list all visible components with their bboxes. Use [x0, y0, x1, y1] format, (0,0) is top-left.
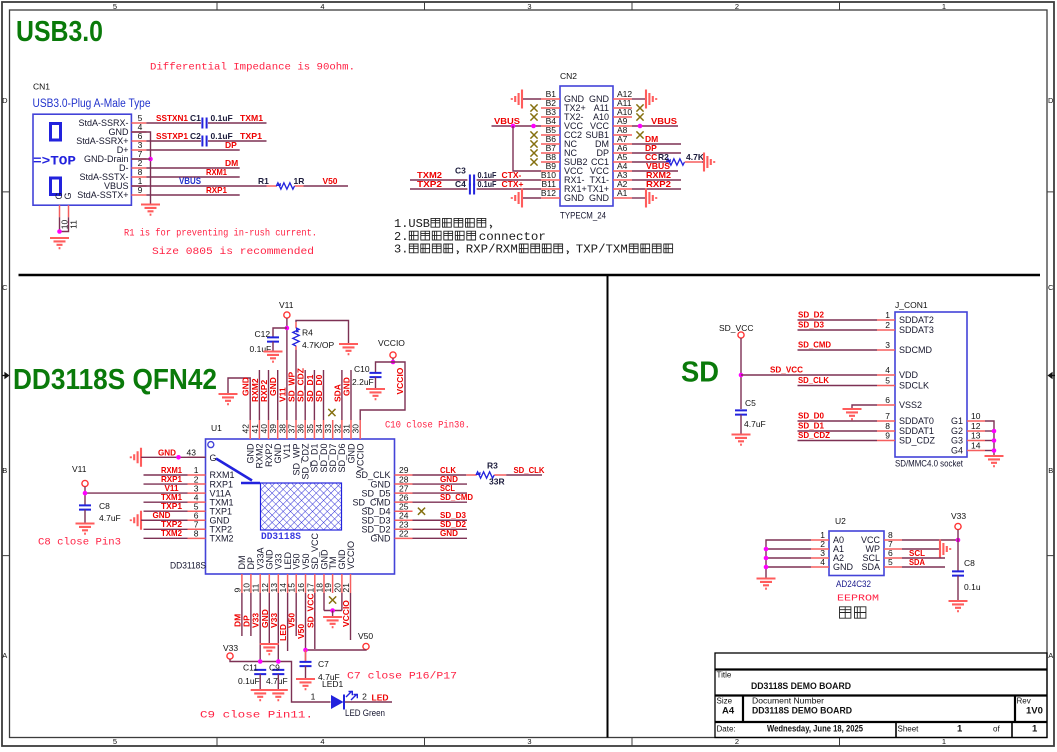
connector CN1 body [33, 114, 131, 205]
svg-text:LED1: LED1 [322, 679, 344, 689]
CN1 pin stubs [131, 123, 146, 195]
svg-text:VCCIO: VCCIO [346, 541, 356, 570]
section divider horizontal [19, 274, 1041, 277]
junction V11 left [83, 491, 88, 496]
svg-text:G4: G4 [951, 446, 963, 456]
svg-text:4.7K: 4.7K [686, 152, 705, 162]
svg-text:3: 3 [527, 737, 531, 746]
svg-text:V11: V11 [72, 464, 87, 474]
svg-text:LED: LED [372, 693, 389, 703]
svg-text:Size: Size [717, 697, 733, 706]
svg-text:5: 5 [113, 2, 117, 11]
wire C12 ground [272, 342, 274, 351]
svg-text:C5: C5 [745, 398, 756, 408]
U1 corner mark [216, 459, 260, 484]
wire VCCIO to pin30 [360, 362, 405, 420]
svg-text:4.7uF: 4.7uF [744, 419, 766, 429]
section divider vertical [607, 275, 609, 738]
svg-text:R4: R4 [302, 328, 313, 338]
svg-text:C7 close P16/P17: C7 close P16/P17 [347, 671, 457, 683]
capacitor C4 [470, 184, 474, 195]
power symbol V11 left [82, 480, 88, 486]
svg-text:10: 10 [971, 411, 981, 421]
svg-text:1: 1 [942, 737, 946, 746]
svg-text:5: 5 [885, 376, 890, 386]
power symbol VCCIO [390, 352, 396, 358]
svg-text:SD_CLK: SD_CLK [798, 375, 830, 385]
ground U1 pin43 [131, 448, 141, 467]
svg-text:Size 0805 is recommended: Size 0805 is recommended [152, 246, 314, 258]
wire U2 WP ground [902, 548, 940, 550]
resistor R3 [466, 472, 506, 478]
CN1 USB icon upper [51, 124, 61, 141]
wire U1 pin22 [413, 537, 468, 539]
svg-text:2.2uF: 2.2uF [352, 377, 374, 387]
svg-text:V33: V33 [223, 643, 238, 653]
wire CN1 GND [131, 132, 150, 204]
junction U2 V33 [956, 538, 961, 543]
wire V50 to pin16 [306, 649, 367, 651]
CN2 pin stubs [541, 99, 632, 198]
svg-text:RXP2: RXP2 [646, 179, 671, 189]
connector J_CON1 body [895, 312, 967, 457]
wire U1 pin18-20 tie [324, 610, 342, 612]
junction V33 C9 [276, 659, 281, 664]
wire SD_CDZ j [798, 440, 878, 442]
svg-text:G: G [210, 453, 217, 463]
svg-text:R1: R1 [258, 176, 269, 186]
svg-text:DD3118S: DD3118S [170, 561, 206, 571]
svg-text:R3: R3 [487, 461, 498, 471]
wire VCCIO down [392, 358, 394, 362]
ground U1 pin18-20 [323, 617, 342, 627]
wire CN2 A12 [632, 98, 646, 100]
wire CLK [413, 474, 467, 476]
wire R2 to ground [702, 161, 704, 163]
wire RXM1 [146, 176, 239, 178]
capacitor C9 [272, 670, 284, 674]
wire C7 ground [305, 666, 307, 678]
wire DM CN2 [632, 143, 681, 145]
svg-text:C8: C8 [99, 501, 110, 511]
svg-text:13: 13 [971, 431, 981, 441]
wire CN2 B12 [522, 197, 541, 199]
ground R4 [339, 344, 358, 354]
svg-text:GND: GND [833, 562, 854, 572]
note routing swap line3 [394, 243, 673, 257]
svg-text:G2: G2 [951, 426, 963, 436]
wires J_CON1 G2 G3 G4 [985, 431, 994, 451]
svg-text:U1: U1 [211, 423, 222, 433]
U2 pin stubs [811, 540, 902, 567]
svg-text:VCCIO: VCCIO [378, 338, 405, 348]
svg-text:GND: GND [371, 534, 392, 544]
wire V50 [304, 185, 349, 187]
ground CN1 bottom [50, 238, 69, 248]
svg-text:SD_D2: SD_D2 [798, 310, 824, 320]
power symbol SD_VCC [738, 332, 744, 338]
svg-text:C: C [2, 283, 8, 292]
wire RXM2 [632, 179, 681, 181]
svg-text:SDA: SDA [861, 562, 880, 572]
wire DM [146, 167, 239, 169]
svg-text:2: 2 [885, 320, 890, 330]
wire U1 TXM1 [144, 501, 188, 503]
svg-text:USB3.0: USB3.0 [16, 16, 103, 48]
wire U1 TXM2 [144, 537, 188, 539]
wire CN2 B9 feed [513, 126, 541, 171]
svg-text:1V0: 1V0 [1026, 706, 1043, 717]
svg-text:B: B [2, 466, 7, 475]
junction C7 [303, 648, 308, 653]
wire CC [632, 161, 669, 163]
svg-text:5: 5 [113, 737, 117, 746]
svg-text:V11: V11 [279, 300, 294, 310]
junction CN1 pin7 [148, 157, 153, 162]
svg-text:RXM1: RXM1 [206, 167, 227, 177]
wire SD_D1 j [798, 430, 878, 432]
svg-text:SD_D1: SD_D1 [798, 421, 824, 431]
svg-text:GND: GND [440, 528, 458, 538]
svg-text:C2: C2 [190, 131, 201, 141]
wire U1 V11 pin3 [85, 492, 188, 494]
wire SSTXP1 [146, 140, 201, 142]
wire C8 to ground [84, 510, 86, 523]
wire SSTXN1 [146, 122, 201, 124]
wire CN2 A1 [632, 197, 646, 199]
svg-text:of: of [993, 725, 1000, 734]
ground CN2 A12 [646, 90, 656, 109]
svg-text:DD3118S QFN42: DD3118S QFN42 [13, 364, 217, 396]
wire CN1 pin11 [60, 217, 69, 231]
svg-text:U2: U2 [835, 516, 846, 526]
svg-text:Sheet: Sheet [898, 725, 920, 734]
wire U1 pin26 [413, 501, 468, 503]
svg-text:C1: C1 [190, 113, 201, 123]
ground U2 WP [940, 540, 950, 559]
junction U2 GND [764, 565, 769, 570]
connector CN2 body [560, 86, 613, 206]
wire C11 ground [259, 674, 261, 689]
svg-text:GND: GND [158, 447, 176, 457]
junction VCCIO [391, 360, 396, 365]
wire VBUS CN2 left [492, 125, 542, 127]
svg-text:8: 8 [885, 421, 890, 431]
U1 top bottom pin stubs [242, 420, 360, 593]
J_CON1 pin names and numbers [885, 310, 980, 456]
svg-text:SDDAT1: SDDAT1 [899, 426, 934, 436]
svg-text:0.1uF: 0.1uF [211, 113, 233, 123]
wire R4 top to ground [296, 321, 349, 344]
svg-text:C8 close Pin3: C8 close Pin3 [38, 537, 121, 549]
capacitor C12 [267, 337, 279, 341]
svg-text:SD_D0: SD_D0 [314, 374, 324, 402]
wire V33 U2 stem [957, 530, 959, 540]
wire SD_D0 j [798, 420, 878, 422]
junction V33 C11 [258, 659, 263, 664]
wire V11 left [84, 487, 86, 506]
wire pin19 ground stem [332, 611, 334, 617]
svg-text:4: 4 [320, 2, 324, 11]
wire SD_WP down [295, 350, 297, 420]
CN2 no-connect marks [530, 104, 643, 165]
svg-text:C12: C12 [255, 329, 271, 339]
svg-text:DD3118S DEMO BOARD: DD3118S DEMO BOARD [751, 681, 851, 692]
wire to C12 [273, 328, 287, 337]
svg-text:C10: C10 [354, 364, 370, 374]
no-connect U1 pin25 [418, 508, 425, 515]
ground C10 [366, 389, 385, 399]
IC U2 body [829, 531, 884, 576]
resistor R1 [267, 183, 304, 189]
right fold arrow [1049, 373, 1056, 378]
ground C8 U2 [949, 601, 968, 611]
svg-text:SD_CMD: SD_CMD [798, 340, 831, 350]
svg-text:GND: GND [342, 377, 352, 396]
junction G2 [992, 429, 997, 434]
svg-text:TXM1: TXM1 [240, 113, 263, 123]
ground U1 pin6 [131, 511, 141, 530]
svg-text:2: 2 [735, 737, 739, 746]
svg-text:Date:: Date: [717, 725, 736, 734]
svg-text:Wednesday, June 18, 2025: Wednesday, June 18, 2025 [767, 724, 864, 735]
svg-text:VDD: VDD [899, 370, 919, 380]
svg-text:1R: 1R [294, 176, 305, 186]
svg-text:12: 12 [971, 421, 981, 431]
svg-text:J_CON1: J_CON1 [895, 300, 928, 310]
U1 bottom pin wires [242, 593, 351, 662]
svg-text:V33: V33 [951, 511, 966, 521]
junction CN2 A9 [638, 124, 643, 129]
svg-text:14: 14 [971, 441, 981, 451]
wire U1 pin43 GND [141, 456, 206, 458]
svg-text:SD_VCC: SD_VCC [305, 594, 315, 628]
svg-text:A: A [1048, 651, 1053, 660]
wire RXP1 [146, 194, 239, 196]
wire SD_CLK j [798, 385, 878, 387]
U2 reserved note [840, 607, 866, 618]
U1 top bottom pin names and numbers [232, 424, 365, 593]
svg-text:4: 4 [320, 737, 324, 746]
ground R2 [704, 153, 714, 172]
wire U2 SCL [902, 557, 945, 559]
wire TXM2 [410, 179, 467, 181]
wire SD_CMD j [798, 349, 878, 351]
svg-text:C9: C9 [269, 663, 280, 673]
svg-text:A4: A4 [722, 706, 735, 717]
svg-text:Title: Title [717, 671, 732, 680]
junction G4 [992, 448, 997, 453]
wire V11 top [286, 318, 288, 420]
wire C10 ground [375, 377, 377, 388]
wire CTX+ [477, 188, 541, 190]
capacitor C1 [202, 118, 206, 129]
svg-text:SDA: SDA [909, 557, 925, 567]
CN1 pin 10 11 G labels [54, 192, 73, 199]
svg-text:C3: C3 [455, 166, 466, 176]
resistor R2 [666, 159, 702, 165]
wire U1 RXP1 [144, 483, 188, 485]
svg-text:EEPROM: EEPROM [837, 593, 879, 604]
ground C5 [732, 435, 751, 445]
wire VCCIO to C10 [376, 362, 394, 373]
wire CN2 B1 [522, 98, 541, 100]
wire U1 TXP2 [144, 528, 188, 530]
svg-text:SSTXP1: SSTXP1 [156, 131, 188, 141]
capacitor C8 left [79, 505, 91, 509]
wire DP [146, 149, 239, 151]
wires U2 A1 A2 GND [766, 549, 811, 567]
ground C7 [296, 679, 315, 689]
svg-text:1: 1 [957, 724, 963, 735]
svg-text:SDDAT0: SDDAT0 [899, 416, 934, 426]
svg-text:SD_VCC: SD_VCC [770, 365, 803, 375]
svg-text:SDDAT2: SDDAT2 [899, 315, 934, 325]
svg-text:1: 1 [885, 310, 890, 320]
note USB diff pair line1 [394, 217, 492, 231]
svg-text:7: 7 [885, 411, 890, 421]
svg-text:11: 11 [69, 220, 79, 229]
IC U1 body [206, 439, 395, 574]
svg-text:SD_CDZ: SD_CDZ [798, 430, 830, 440]
svg-text:TXP/TXM: TXP/TXM [576, 243, 628, 257]
wire U1 pin6 GND [141, 519, 188, 521]
wire CTX- [477, 179, 541, 181]
svg-text:VCCIO: VCCIO [356, 444, 366, 473]
svg-text:SD: SD [681, 357, 719, 389]
svg-text:G1: G1 [951, 416, 963, 426]
svg-text:V50: V50 [323, 176, 338, 186]
svg-text:=>TOP: =>TOP [33, 154, 76, 169]
wire U1 pin42 to ground [228, 378, 250, 420]
ground U2 left [757, 579, 776, 589]
svg-text:SD_D0: SD_D0 [798, 411, 824, 421]
svg-text:CN1: CN1 [33, 82, 50, 92]
svg-text:2: 2 [735, 2, 739, 11]
wire C5 ground [740, 415, 742, 434]
svg-text:TXM2: TXM2 [161, 528, 182, 538]
svg-text:DP: DP [225, 140, 237, 150]
svg-text:SDDAT3: SDDAT3 [899, 325, 934, 335]
U1 side pin names and numbers [187, 448, 409, 544]
svg-text:C11: C11 [243, 663, 258, 673]
svg-text:C9 close Pin11.: C9 close Pin11. [200, 710, 313, 722]
CN1 pins 10 11 stubs [60, 205, 69, 217]
svg-text:VCCIO: VCCIO [341, 600, 351, 627]
capacitor C3 [470, 175, 474, 186]
svg-text:Document Number: Document Number [752, 697, 824, 706]
svg-text:9: 9 [885, 431, 890, 441]
svg-text:A: A [2, 651, 7, 660]
svg-text:GND: GND [589, 193, 610, 203]
wire U1 TXP1 [144, 510, 188, 512]
svg-text:1: 1 [942, 2, 946, 11]
svg-text:CN2: CN2 [560, 71, 577, 81]
power symbol V33 U2 [955, 523, 961, 529]
no-connect U1 pin19 [329, 596, 336, 603]
wire VBUS A4 [632, 170, 678, 172]
no-connect U1 pin33 [328, 409, 335, 416]
wire U2 SDA [902, 566, 945, 568]
svg-text:TXP2: TXP2 [417, 179, 442, 189]
svg-text:B: B [1048, 466, 1053, 475]
svg-text:D: D [1048, 96, 1054, 105]
svg-text:33R: 33R [489, 477, 505, 487]
svg-text:D: D [2, 96, 8, 105]
svg-text:SDCLK: SDCLK [899, 381, 929, 391]
ground C12 [264, 352, 283, 362]
svg-text:C7: C7 [318, 659, 329, 669]
wire U1 pin28 [413, 483, 468, 485]
svg-text:6: 6 [885, 395, 890, 405]
ground VSS2 [843, 409, 862, 419]
svg-text:0.1uF: 0.1uF [478, 179, 497, 189]
wire RXP2 [632, 188, 681, 190]
svg-text:R1 is for preventing in-rush c: R1 is for preventing in-rush current. [124, 228, 317, 240]
ground C11 [251, 690, 270, 700]
wire U1 pin27 [413, 492, 468, 494]
svg-text:DD3118S: DD3118S [261, 532, 301, 543]
wire SD_VCC down [740, 338, 742, 409]
wire U1 pin24 [413, 519, 468, 521]
svg-text:GND: GND [564, 193, 585, 203]
ground C8 left [76, 524, 95, 534]
U2 pin names and numbers [820, 530, 893, 572]
svg-text:C10 close Pin30.: C10 close Pin30. [385, 420, 470, 432]
svg-text:C4: C4 [455, 179, 466, 189]
wire C7 red lead [305, 650, 307, 661]
wire TXP1 [208, 140, 267, 142]
wire CN1 pin10 [59, 217, 61, 231]
svg-text:43: 43 [187, 448, 197, 458]
wire SD_VCC to VDD [741, 374, 877, 376]
svg-text:SD_CMD: SD_CMD [440, 492, 473, 502]
svg-text:AD24C32: AD24C32 [836, 579, 871, 589]
junction U1 pin43 [176, 455, 181, 460]
power symbol V11 top [284, 312, 290, 318]
svg-text:SD_CLK: SD_CLK [514, 465, 546, 475]
junction G3 [992, 438, 997, 443]
svg-text:0.1u: 0.1u [964, 582, 981, 592]
wire CN1 pin7 [131, 158, 150, 160]
svg-text:CTX+: CTX+ [502, 179, 524, 189]
left fold arrow [2, 373, 9, 378]
wire VSS2 ground [852, 405, 877, 408]
capacitor C2 [202, 136, 206, 147]
power symbol V50 [363, 643, 369, 649]
svg-text:SD_VCC: SD_VCC [719, 323, 753, 333]
svg-text:Differential Impedance is 90oh: Differential Impedance is 90ohm. [150, 62, 355, 74]
svg-text:RXP/RXM: RXP/RXM [466, 243, 518, 257]
svg-text:1: 1 [1032, 724, 1038, 735]
CN1 pin names and numbers [76, 113, 142, 200]
wire VBUS [131, 185, 266, 187]
ground U1 pin42 [219, 394, 238, 404]
svg-text:V50: V50 [358, 631, 373, 641]
svg-text:USB3.0-Plug A-Male Type: USB3.0-Plug A-Male Type [33, 98, 151, 110]
U1 side pin stubs [188, 457, 413, 538]
capacitor C7 [300, 662, 312, 666]
capacitor C10 [370, 373, 382, 377]
wire C8 U2 ground [957, 576, 959, 600]
wire SD_D3 j [798, 329, 878, 331]
junction CN1 pin10-11 [57, 229, 62, 234]
svg-text:TXP1: TXP1 [240, 131, 262, 141]
svg-text:4: 4 [885, 365, 890, 375]
svg-text:TXM2: TXM2 [210, 534, 234, 544]
wire C8 U2 stem [957, 540, 959, 571]
svg-text:2: 2 [362, 692, 367, 702]
